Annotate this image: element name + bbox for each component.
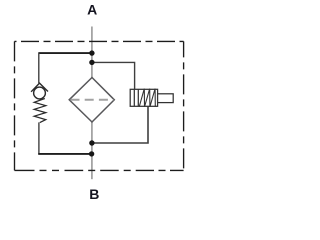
wire: upper-left branch from node to check valve [39,52,92,54]
indicator spring [139,89,155,107]
wire: lower-left branch to node [38,153,92,155]
wire: main vertical line from filter bottom to B [91,122,93,179]
check valve CV1 seat [31,83,48,92]
enclosure dashed border left [14,41,16,170]
wire: check valve bottom lead [38,122,40,153]
enclosure dashed border right [183,41,185,170]
svg-text:B: B [89,186,99,202]
junction node 4 [89,151,94,156]
junction node 2 [89,60,94,65]
wire: upper-right branch from node to indicator [92,62,135,89]
wire: check valve top lead [38,52,40,83]
indicator rod [158,94,174,103]
svg-text:A: A [87,2,97,18]
junction node 1 [89,50,94,55]
filter element (dashed line) [71,99,114,101]
wire: main vertical line from A to filter top [91,27,93,79]
indicator piston [133,89,135,106]
enclosure dashed border bottom [15,169,184,171]
enclosure dashed border top [15,40,184,42]
check valve CV1 ball [34,87,46,99]
clogging indicator S1 body [130,89,157,106]
junction node 3 [89,140,94,145]
wire: lower-right branch from indicator to node [92,106,148,143]
filter F1 (diamond) [69,78,114,123]
check valve spring [34,99,46,123]
